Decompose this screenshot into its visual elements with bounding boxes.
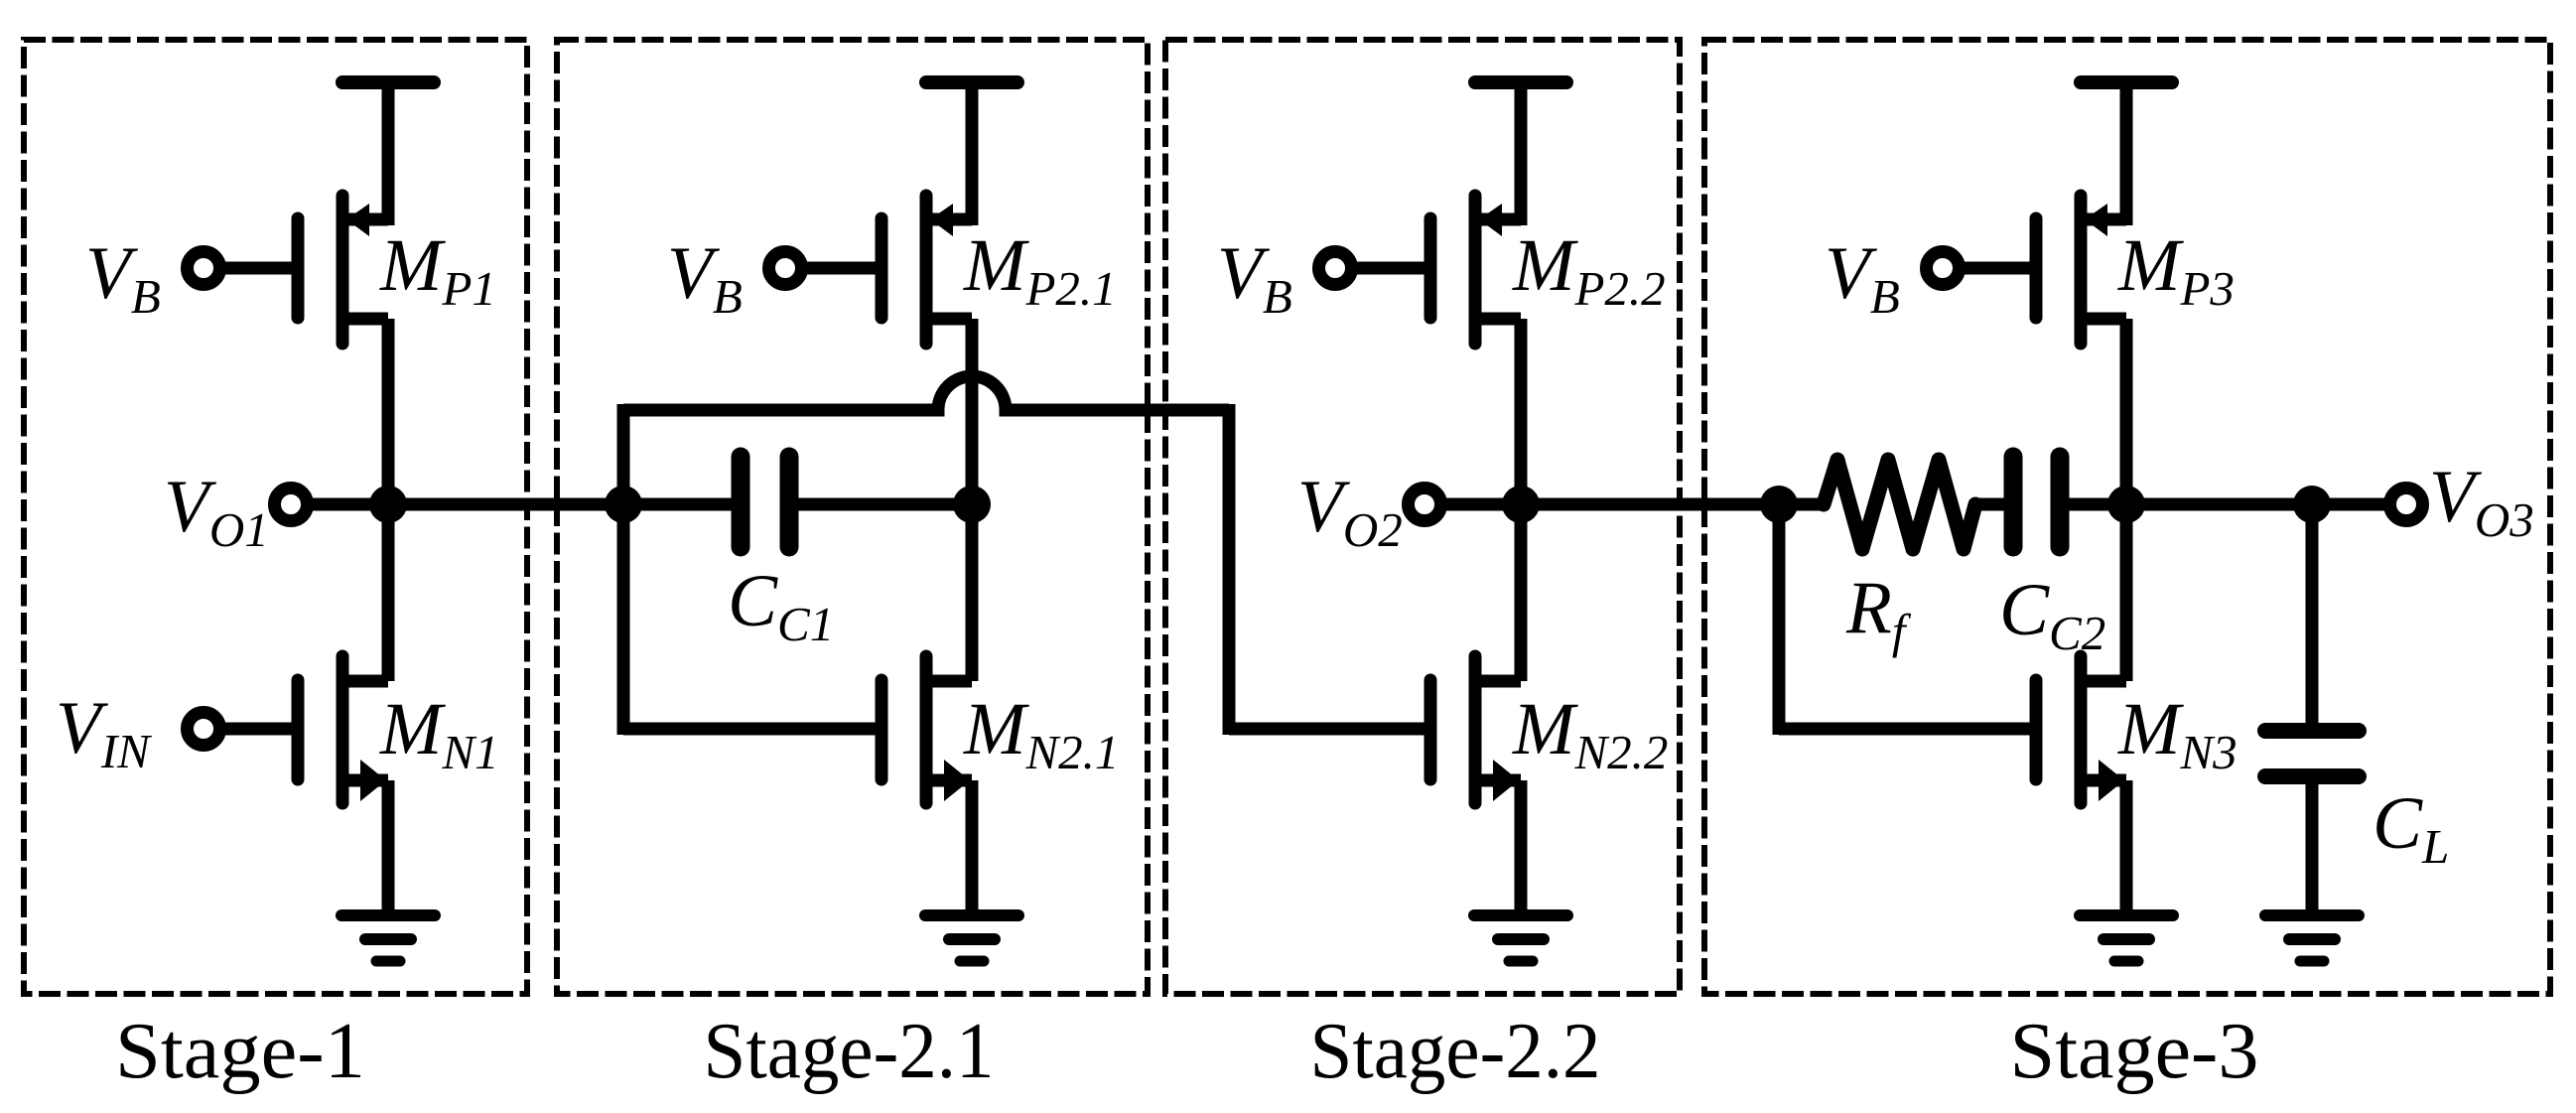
node R_f/C_C2 input junction xyxy=(1760,486,1798,523)
wire right leg to M_N2.2 gate xyxy=(1229,723,1430,736)
resistor R_f xyxy=(1824,460,1975,549)
wire V_B to stage 3 PMOS gate xyxy=(1959,262,2036,275)
wire M_P2.2 drain to node V_O2 xyxy=(1515,319,1528,504)
wire drain node to M_N3 drain xyxy=(2120,504,2133,681)
wire VDD rail to M_P3 source xyxy=(2120,87,2133,225)
stage box Stage-3 xyxy=(1704,40,2550,994)
terminal V_B (stage 2.2) xyxy=(1319,252,1352,285)
wire M_P1 drain to node V_O1 xyxy=(382,319,395,504)
stage box Stage-1 xyxy=(24,40,527,994)
ground (stage 2.2) xyxy=(1474,915,1567,961)
svg-text:Stage-1: Stage-1 xyxy=(115,1008,365,1095)
ground (stage 1) xyxy=(341,915,435,961)
terminal V_O2 xyxy=(1409,488,1441,521)
transistor M_N2.2 (NMOS) xyxy=(1430,656,1521,803)
wire node V_O2 to M_N2.2 drain xyxy=(1515,504,1528,681)
wire M_P3 drain to node V_O3 xyxy=(2120,319,2133,504)
wire V_B to stage 2.1 PMOS gate xyxy=(801,262,881,275)
terminal V_B (stage 1) xyxy=(188,252,220,285)
svg-text:Stage-2.1: Stage-2.1 xyxy=(704,1008,995,1095)
wire M_N1 source to ground xyxy=(382,780,395,910)
wire M_N2.2 source to ground xyxy=(1515,780,1528,910)
wire node V_O1 to M_N1 drain xyxy=(382,504,395,681)
wire V_B to stage 2.2 PMOS gate xyxy=(1351,262,1430,275)
transistor M_N3 (NMOS) xyxy=(2036,656,2126,803)
node V_O2 junction xyxy=(1502,486,1540,523)
wire gate row to M_N2.1 gate xyxy=(623,723,881,736)
terminal V_B (stage 3) xyxy=(1927,252,1960,285)
wire drain node to C_L node xyxy=(2126,498,2312,511)
wire V_O2 terminal to node xyxy=(1440,498,1521,511)
wire V_IN to M_N1 gate xyxy=(219,723,298,736)
wire C_L bottom plate to ground xyxy=(2306,783,2319,910)
wire gate row to M_N3 gate xyxy=(1779,723,2036,736)
node C_L junction xyxy=(2293,486,2331,523)
ground (stage 3) xyxy=(2080,915,2173,961)
node C_C1 right junction xyxy=(953,486,991,523)
stage box Stage-2.2 xyxy=(1165,40,1680,994)
wire VDD rail to M_P2.1 source xyxy=(966,87,979,225)
transistor M_P3 (PMOS) xyxy=(2036,196,2126,344)
wire input node down to gate row xyxy=(1773,504,1786,735)
power rail VDD (M_P2.2) xyxy=(1475,75,1566,89)
wire feedback top with hop over drain xyxy=(623,376,1229,410)
wire VDD rail to M_P2.2 source xyxy=(1515,87,1528,225)
transistor M_N2.1 (NMOS) xyxy=(881,656,972,803)
wire input node to resistor R_f xyxy=(1779,498,1824,511)
terminal V_O1 xyxy=(275,488,308,521)
capacitor C_C1 xyxy=(741,457,789,547)
wire node V_O2 to Stage-3 xyxy=(1521,498,1779,511)
terminal V_O3 xyxy=(2390,488,2423,521)
transistor M_N1 (NMOS) xyxy=(298,656,388,803)
svg-text:Stage-2.2: Stage-2.2 xyxy=(1310,1008,1601,1095)
wire M_P2.1 drain down across hop to node xyxy=(966,319,979,504)
svg-text:Stage-3: Stage-3 xyxy=(2010,1008,2259,1095)
wire M_N3 source to ground xyxy=(2120,780,2133,910)
wire C_C2 right plate to node xyxy=(2060,498,2126,511)
wire node V_O1 to Stage-2.1 xyxy=(388,498,623,511)
wire feedback left leg (node to gate row) xyxy=(617,404,630,735)
wire node to C_C1 left plate xyxy=(623,498,741,511)
wire V_O1 terminal to node xyxy=(307,498,388,511)
transistor M_P2.2 (PMOS) xyxy=(1430,196,1521,344)
ground (C_L) xyxy=(2265,915,2359,961)
wire VDD rail to M_P1 source xyxy=(382,87,395,225)
wire C_L node down to C_L top plate xyxy=(2306,504,2319,724)
terminal V_IN xyxy=(188,713,220,746)
wire Stage-2.1 output right leg down xyxy=(1223,404,1236,735)
node M_P3/M_N3 drain junction xyxy=(2107,486,2145,523)
power rail VDD (M_P3) xyxy=(2081,75,2172,89)
wire M_N2.1 source to ground xyxy=(966,780,979,910)
wire C_L node to V_O3 terminal xyxy=(2312,498,2384,511)
transistor M_P2.1 (PMOS) xyxy=(881,196,972,344)
wire C_C1 right plate to node xyxy=(789,498,972,511)
power rail VDD (M_P1) xyxy=(342,75,434,89)
node V_O1 junction xyxy=(369,486,407,523)
ground (stage 2.1) xyxy=(925,915,1018,961)
wire V_B to stage 1 PMOS gate xyxy=(219,262,298,275)
stage box Stage-2.1 xyxy=(557,40,1148,994)
terminal V_B (stage 2.1) xyxy=(769,252,802,285)
transistor M_P1 (PMOS) xyxy=(298,196,388,344)
node C_C1 left junction xyxy=(605,486,642,523)
capacitor C_L xyxy=(2265,731,2359,776)
wire node to M_N2.1 drain xyxy=(966,504,979,681)
capacitor C_C2 xyxy=(2013,457,2060,547)
power rail VDD (M_P2.1) xyxy=(926,75,1017,89)
wire R_f to C_C2 left plate xyxy=(1975,498,2013,511)
